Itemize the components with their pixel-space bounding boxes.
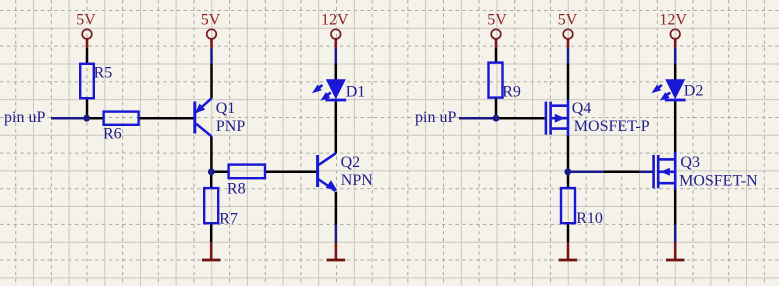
wire 12V to D2 (upper) bbox=[674, 48, 677, 64]
svg-text:pin uP: pin uP bbox=[4, 109, 45, 126]
resistor R5 bbox=[80, 64, 94, 98]
wire pin uP label stub (right) bbox=[459, 117, 496, 120]
LED D1 bbox=[312, 79, 346, 101]
svg-text:MOSFET-N: MOSFET-N bbox=[679, 173, 758, 190]
resistor R10 bbox=[561, 188, 575, 223]
wire R9 to node pin uP bbox=[495, 98, 498, 119]
junction B (Q1 collector) bbox=[208, 168, 215, 175]
wire 5V to Q4 source (upper) bbox=[567, 48, 570, 64]
wire node to Q3 gate (seg 1) bbox=[568, 171, 604, 174]
wire Q3 source to ground (lower) bbox=[674, 225, 677, 243]
wire node to R6 bbox=[85, 117, 104, 120]
wire Q4 drain to node bbox=[567, 136, 570, 173]
wire node to Q4 gate bbox=[496, 117, 545, 120]
wire R8 to Q2 base bbox=[265, 171, 317, 174]
wire 5V to R5 bbox=[86, 48, 89, 64]
ground bbox=[202, 242, 221, 260]
wire Q1 collector to node bbox=[210, 136, 213, 173]
transistor Q4 (MOSFET-P) bbox=[546, 100, 568, 136]
svg-text:R5: R5 bbox=[94, 65, 113, 82]
svg-text:5V: 5V bbox=[558, 11, 578, 28]
ground bbox=[327, 242, 346, 260]
svg-text:12V: 12V bbox=[321, 11, 349, 28]
wire R5 to node pin uP bbox=[86, 98, 89, 119]
power port 5V bbox=[207, 29, 217, 47]
svg-text:D2: D2 bbox=[684, 83, 704, 100]
wire 12V to D1 (upper) bbox=[335, 48, 338, 64]
svg-text:R9: R9 bbox=[502, 83, 521, 100]
wire Q2 emitter to ground (lower) bbox=[335, 225, 338, 243]
svg-text:5V: 5V bbox=[201, 11, 221, 28]
junction A (pin uP left) bbox=[83, 115, 90, 122]
ground bbox=[666, 242, 685, 260]
svg-text:pin uP: pin uP bbox=[415, 109, 456, 126]
svg-text:NPN: NPN bbox=[341, 172, 373, 189]
power port 5V bbox=[491, 29, 501, 47]
wire D2 to Q3 drain bbox=[674, 101, 677, 152]
power port 5V bbox=[563, 29, 573, 47]
wire R6 to Q1 base bbox=[139, 117, 194, 120]
wire R10 to ground bbox=[567, 223, 570, 242]
wire node to R8 bbox=[211, 171, 228, 174]
svg-text:R8: R8 bbox=[227, 180, 246, 197]
junction D (Q4 drain) bbox=[564, 168, 571, 175]
wire node to Q3 gate (seg 2) bbox=[604, 171, 640, 174]
transistor Q2 (NPN) bbox=[318, 153, 338, 191]
wire 12V to D1 (lower) bbox=[335, 64, 338, 80]
resistor R9 bbox=[489, 63, 503, 98]
svg-text:5V: 5V bbox=[76, 11, 96, 28]
power port 5V bbox=[82, 29, 92, 47]
ground bbox=[559, 242, 578, 260]
wire 5V to R9 bbox=[495, 48, 498, 63]
wire R7 to ground bbox=[210, 223, 213, 242]
wire node to R7 bbox=[210, 172, 213, 189]
svg-text:Q4: Q4 bbox=[572, 100, 592, 117]
wire Q3 source to ground (upper) bbox=[674, 189, 677, 224]
resistor R7 bbox=[204, 188, 218, 223]
wire node to R10 bbox=[567, 172, 570, 189]
wire 12V to D2 (lower) bbox=[674, 64, 677, 80]
svg-text:R10: R10 bbox=[576, 210, 603, 227]
svg-text:Q1: Q1 bbox=[216, 100, 236, 117]
wire 5V to Q1 emitter (upper) bbox=[210, 48, 213, 64]
junction C (pin uP right) bbox=[493, 115, 500, 122]
wire Q2 emitter to ground (upper) bbox=[335, 192, 338, 225]
svg-text:R6: R6 bbox=[103, 126, 122, 143]
transistor Q3 (MOSFET-N) bbox=[654, 152, 676, 189]
svg-text:Q3: Q3 bbox=[680, 154, 700, 171]
wire 5V to Q4 source (lower) bbox=[567, 64, 570, 100]
LED D2 bbox=[651, 79, 685, 101]
svg-text:12V: 12V bbox=[659, 11, 687, 28]
wire 5V to Q1 emitter (lower) bbox=[210, 64, 213, 98]
resistor R6 bbox=[104, 112, 139, 125]
svg-text:D1: D1 bbox=[346, 83, 366, 100]
power port 12V bbox=[331, 29, 341, 47]
wire node to Q3 gate (seg 3) bbox=[640, 171, 653, 174]
svg-text:5V: 5V bbox=[487, 11, 507, 28]
svg-text:R7: R7 bbox=[219, 210, 238, 227]
svg-text:MOSFET-P: MOSFET-P bbox=[574, 118, 650, 135]
power port 12V bbox=[670, 29, 680, 47]
transistor Q1 (PNP) bbox=[195, 98, 212, 136]
svg-text:PNP: PNP bbox=[216, 118, 245, 135]
svg-text:Q2: Q2 bbox=[341, 154, 361, 171]
wire pin uP label stub bbox=[51, 117, 87, 120]
wire D1 to Q2 collector bbox=[335, 101, 338, 153]
resistor R8 bbox=[229, 165, 265, 179]
